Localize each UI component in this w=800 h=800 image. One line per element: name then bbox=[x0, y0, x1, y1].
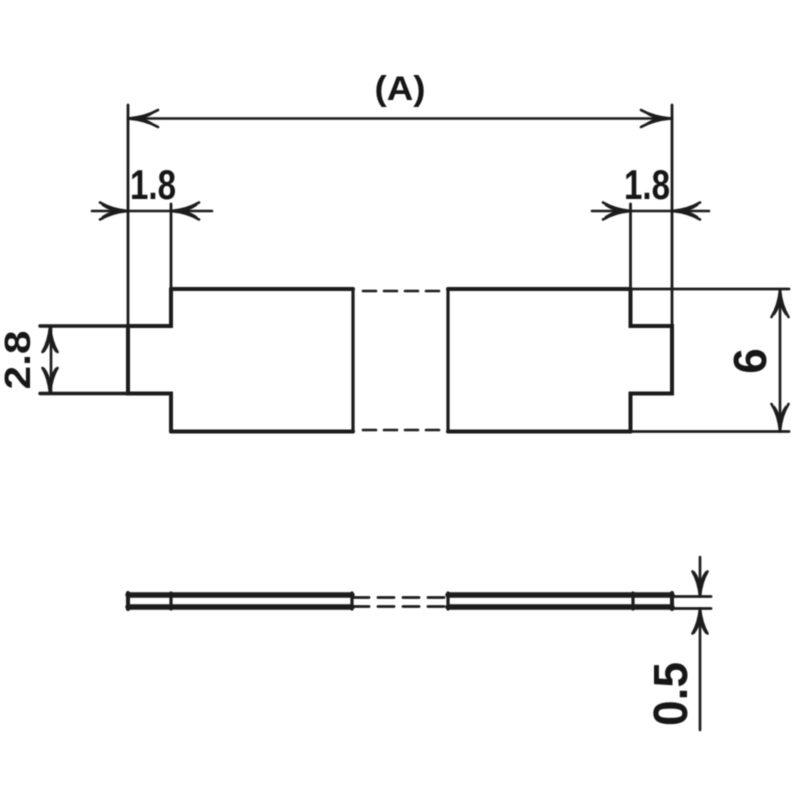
bottom view plate top edge left solid bbox=[128, 592, 352, 597]
dimension 0.5 upper arrowhead pointing down bbox=[693, 572, 708, 597]
extension line right x=672 bbox=[671, 105, 674, 326]
break boundary vertical left bbox=[351, 289, 354, 432]
bottom view plate right end cap bbox=[670, 593, 674, 609]
bottom view plate left end cap bbox=[126, 593, 130, 609]
bottom view terminal tick x=633 bbox=[631, 593, 634, 609]
svg-text:1.8: 1.8 bbox=[130, 161, 176, 208]
dimension 1.8 right inward arrowhead at x=672 bbox=[672, 203, 700, 220]
extension line x=630 bbox=[629, 204, 632, 289]
dimension 2.8 top arrowhead bbox=[43, 327, 58, 352]
svg-text:2.8: 2.8 bbox=[0, 331, 38, 390]
break dashed bottom edge bbox=[363, 429, 447, 432]
dimension 1.8 left inward arrowhead at x=128 bbox=[100, 203, 128, 220]
extension line body bottom to x=788 bbox=[631, 430, 790, 433]
bottom view break tick x=448 bbox=[446, 593, 449, 609]
dimension 2.8 bottom arrowhead bbox=[43, 368, 58, 393]
break dashed top edge bbox=[363, 290, 447, 293]
bottom view break dashed top bbox=[353, 596, 446, 599]
body outline top edge right segment bbox=[448, 287, 631, 291]
bottom view break tick x=352 bbox=[350, 593, 353, 609]
svg-text:6: 6 bbox=[724, 348, 776, 374]
bottom view plate top edge right solid bbox=[448, 592, 672, 597]
dimension 1.8 left line with tails bbox=[92, 210, 212, 213]
break boundary vertical right bbox=[446, 289, 449, 432]
bottom view plate bottom edge right solid bbox=[448, 604, 672, 609]
dimension (A) left arrowhead bbox=[128, 110, 158, 127]
dimension 0.5 bottom extension line bbox=[672, 607, 711, 610]
dimension 1.8 left inward arrowhead at x=172 bbox=[171, 203, 199, 220]
extension line tab bottom y=393 bbox=[40, 392, 128, 395]
dimension 1.8 right inward arrowhead at x=630 bbox=[603, 203, 631, 220]
extension line left x=128 bbox=[127, 105, 130, 326]
svg-text:1.8: 1.8 bbox=[624, 161, 670, 208]
dimension 0.5 lower arrowhead pointing up bbox=[693, 609, 708, 634]
dimension 2.8 vertical line bbox=[50, 326, 53, 394]
body outline top edge left segment bbox=[171, 287, 353, 291]
dimension (A) line bbox=[128, 117, 672, 120]
dimension 6 top arrowhead bbox=[772, 290, 789, 317]
body outline bottom edge left segment bbox=[171, 430, 353, 434]
body right end profile with terminal tab bbox=[631, 289, 673, 432]
dimension 6 vertical line bbox=[779, 289, 782, 432]
dimension 0.5 leader line down bbox=[699, 609, 702, 731]
dimension 0.5 top extension line bbox=[672, 595, 711, 598]
body outline bottom edge right segment bbox=[448, 430, 631, 434]
extension line body top to x=788 bbox=[631, 288, 790, 291]
extension line x=172 bbox=[170, 204, 173, 289]
bottom view plate bottom edge left solid bbox=[128, 604, 352, 609]
extension line tab top y=326 bbox=[40, 324, 128, 327]
dimension 0.5 upper arrow tail bbox=[699, 557, 702, 597]
svg-text:(A): (A) bbox=[375, 70, 426, 108]
dimension 6 bottom arrowhead bbox=[772, 404, 789, 431]
dimension (A) right arrowhead bbox=[641, 110, 671, 127]
bottom view break dashed bottom bbox=[353, 605, 446, 608]
dimension 1.8 right line with tails bbox=[592, 210, 709, 213]
bottom view terminal tick x=171 bbox=[169, 593, 172, 609]
svg-text:0.5: 0.5 bbox=[645, 662, 698, 726]
body left end profile with terminal tab bbox=[128, 289, 171, 432]
